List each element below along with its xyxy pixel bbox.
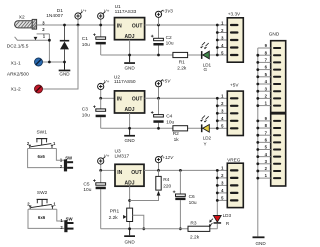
GND header pin line 3 (group1) [258,90,271,92]
svg-text:+5V: +5V [230,83,239,88]
junction C4 top [157,97,160,100]
svg-text:10u: 10u [166,41,174,47]
GND header pin line 3 (group2) [258,163,271,165]
svg-text:LD3: LD3 [223,213,232,218]
GND header pin line 5 (group2) [258,149,271,151]
power terminal +3V3 [158,17,160,25]
svg-text:X1-2: X1-2 [11,87,21,93]
resistor R4 220 [158,170,160,176]
LED LD2 yellow [200,116,211,147]
VREG header pin line 1 [217,169,227,171]
capacitor C1 10u [93,25,106,55]
svg-text:C5: C5 [83,181,89,187]
+5V header pin line 3 [217,112,227,114]
wire X1-2 riser to V+ [43,25,79,89]
capacitor C6 10u [173,170,186,228]
connector X2 DC jack [15,19,37,29]
junction D1 bottom [63,61,66,64]
svg-text:G: G [204,67,208,72]
power terminal +5V [158,87,160,99]
svg-text:2.2k: 2.2k [190,235,200,241]
wire U3 ADJ down [129,186,131,229]
ground rail row 1 [101,54,218,56]
svg-text:10u: 10u [82,113,90,119]
svg-text:Y: Y [204,142,207,147]
wire V+ top rail [37,24,115,26]
PR1 wiper arrow [123,215,126,219]
svg-text:OUT: OUT [131,170,142,176]
GND bus [257,48,259,236]
GND header pin line 7 (group1) [258,61,271,63]
junction C2 bottom [157,54,160,57]
VREG header pin line 4 [217,192,227,194]
wire X2 switch to X1-1 net [48,34,50,62]
svg-text:1117AS33: 1117AS33 [115,9,137,15]
+3.3V bus [216,25,218,55]
svg-text:R1: R1 [179,59,185,65]
junction C4 bottom [157,127,160,130]
junction C6 top [179,169,182,172]
svg-text:+12V: +12V [162,155,174,160]
GND header pin line 2 (group1) [258,97,271,99]
svg-text:V+: V+ [104,154,110,159]
GND header pin line 9 (group2) [258,120,271,122]
svg-text:SW1: SW1 [36,129,47,135]
ground symbol row 1 [124,55,135,70]
junction C5 top [99,169,102,172]
ground symbol X1 [59,62,71,77]
svg-text:X1-1: X1-1 [11,60,21,66]
PR1 wiper lead [133,215,144,229]
ground symbol row 3 [124,229,135,245]
junction PR1 wiper rail [142,227,145,230]
svg-text:IN: IN [117,170,122,176]
header GND lower 9-pin [271,114,286,186]
+3.3V header pin line 5 [217,54,227,56]
svg-text:GND: GND [124,65,135,70]
X2 sleeve contact line [37,33,50,35]
capacitor C3 10u [93,98,106,128]
svg-text:6x6: 6x6 [38,215,46,220]
svg-text:GND: GND [124,138,135,143]
wire U2 OUT to +5V header [145,97,218,99]
svg-text:10u: 10u [82,42,90,48]
junction ADJ wiper [128,199,131,202]
wire ADJ to R4 bottom [130,195,159,200]
junction X2 vertical / X1-1 wire [48,61,51,64]
GND header pin line 1 (group2) [258,177,271,179]
X2 sleeve arrow [34,37,38,40]
potentiometer PR1 2.2k [127,208,133,221]
svg-text:GND: GND [269,31,280,36]
wire U1 ADJ to ground rail [129,40,131,55]
svg-text:1k: 1k [174,137,180,143]
regulator U3 LM317 [115,164,144,186]
GND header pin line 6 (group2) [258,141,271,143]
R4 wiper arrow [157,191,161,196]
GND header pin line 6 (group1) [258,69,271,71]
svg-text:10u: 10u [166,120,174,126]
GND header pin line 4 (group2) [258,156,271,158]
terminal X1-1 (blue) [35,58,43,66]
svg-text:D1: D1 [57,8,63,14]
power terminal V+ row2 [100,90,102,99]
svg-text:C4: C4 [166,114,172,120]
svg-text:C6: C6 [189,194,195,200]
power terminal V+ (main) [77,19,79,25]
svg-text:R2: R2 [173,131,179,137]
regulator U1 1117AS33 [115,18,145,40]
svg-text:PR1: PR1 [110,209,120,215]
header GND upper 9-pin [271,41,286,113]
svg-text:6x6: 6x6 [38,154,46,159]
wire V+ row2 input [101,97,115,99]
svg-text:10u: 10u [189,200,197,206]
header +5V [227,91,243,135]
junction V+ main [77,24,80,27]
svg-text:LD2: LD2 [203,136,212,141]
+5V header pin line 2 [217,105,227,107]
connector SW (SW1) [64,159,73,171]
wire U2 ADJ to ground rail [129,113,131,128]
svg-text:IN: IN [117,97,122,103]
diode D1 1N4007 shunt [60,25,69,62]
+5V bus [216,98,218,128]
GND header pin line 1 (group1) [258,105,271,107]
VREG bus [216,170,218,215]
junction C3 top [99,97,102,100]
GND header pin line 8 (group2) [258,127,271,129]
svg-text:+5V: +5V [162,78,171,83]
resistor R3 2.2k [188,226,210,231]
svg-text:DC2.1/5.5: DC2.1/5.5 [7,44,29,50]
+5V header pin line 4 [217,120,227,122]
+3.3V header pin line 3 [217,39,227,41]
svg-text:V+: V+ [104,9,110,14]
junction PR1 bottom rail [128,227,131,230]
svg-text:10u: 10u [83,187,91,193]
wire V+ row3 input [101,169,115,171]
svg-text:V+: V+ [81,9,87,14]
svg-text:ADJ: ADJ [124,181,134,187]
svg-text:SW: SW [66,216,74,221]
GND header pin line 5 (group1) [258,76,271,78]
junction C6 bottom [179,227,182,230]
power terminal V+ row3 [100,164,102,170]
regulator U2 1117AS50 [115,91,145,113]
GND header pin line 2 (group2) [258,170,271,172]
switch SW1 6x6 [28,139,64,168]
GND header pin line 8 (group1) [258,54,271,56]
svg-text:R4: R4 [163,177,169,183]
svg-text:SW: SW [65,156,73,161]
capacitor C4 10u [151,98,164,128]
junction R4 top [157,169,160,172]
VREG header pin line 5 [217,199,227,201]
svg-text:X2: X2 [19,15,25,21]
+3.3V header pin line 4 [217,47,227,49]
svg-text:VREG: VREG [227,157,241,162]
+3.3V header pin line 2 [217,32,227,34]
svg-text:R3: R3 [190,220,196,226]
ground symbol GND header [253,236,265,238]
LED LD1 green [200,42,211,72]
resistor R2 1k [173,126,188,131]
svg-text:OUT: OUT [132,97,143,103]
ground symbol row 2 [124,128,135,143]
svg-text:C3: C3 [82,107,88,113]
svg-text:220: 220 [163,183,171,189]
svg-text:OUT: OUT [132,23,143,29]
GND header pin line 7 (group2) [258,134,271,136]
svg-text:IN: IN [117,23,122,29]
terminal X1-2 (red) [35,85,43,93]
svg-text:GND: GND [124,240,135,245]
svg-text:ADJ: ADJ [125,34,135,40]
X2 switch contact line with tip [15,37,50,40]
LED LD3 red vertical [209,216,221,229]
junction ADJ rail row2 [128,127,131,130]
svg-text:+3.3V: +3.3V [228,12,241,17]
svg-text:V+: V+ [104,79,110,84]
wire U1 OUT to +3.3V header [145,24,218,26]
GND header pin line 9 (group1) [258,47,271,49]
power terminal V+ (C1) [100,19,102,25]
svg-text:2.2k: 2.2k [109,215,119,221]
junction D1 top [63,24,66,27]
header +3.3V [227,18,243,62]
capacitor C5 10u [93,170,106,228]
+5V header pin line 5 [217,127,227,129]
GND header pin line 4 (group1) [258,83,271,85]
capacitor C2 10u [151,25,164,55]
VREG header pin line 3 [217,184,227,186]
svg-text:1N4007: 1N4007 [46,13,63,19]
+3.3V header pin line 1 [217,24,227,26]
svg-text:C1: C1 [82,36,88,42]
VREG header pin line 2 [217,177,227,179]
power terminal +12V [158,163,160,171]
header VREG [227,163,243,207]
junction C2 top [157,24,160,27]
svg-text:ADJ: ADJ [125,107,135,113]
connector SW (SW2) [64,220,73,232]
junction X2 contacts [48,39,51,42]
svg-text:C2: C2 [166,35,172,41]
junction C1 top [99,24,102,27]
svg-text:2.2k: 2.2k [177,66,187,72]
svg-text:GND: GND [59,72,70,77]
svg-text:+3V3: +3V3 [162,9,173,14]
svg-text:ARK2/500: ARK2/500 [7,72,29,78]
ground rail row 3 [101,228,218,230]
wire X1-1 net [43,61,65,63]
svg-text:LM317: LM317 [115,153,130,159]
svg-text:1117AS50: 1117AS50 [114,79,136,85]
switch SW2 6x6 [28,199,64,228]
junction ADJ rail [128,54,131,57]
svg-text:GND: GND [255,241,266,246]
+5V header pin line 1 [217,97,227,99]
resistor R1 2.2k [173,52,188,57]
svg-text:SW2: SW2 [37,190,48,196]
ground rail row 2 [101,127,218,129]
wire U3 OUT to VREG header [144,169,217,171]
